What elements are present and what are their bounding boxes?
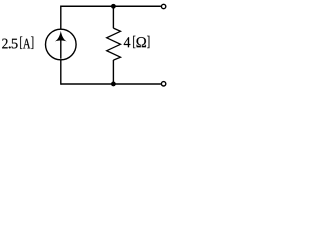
wire left branch lower	[60, 60, 62, 85]
wire left branch upper	[60, 6, 62, 30]
current source I1 arrow shaft	[60, 41, 62, 59]
terminal bottom-right	[161, 82, 165, 86]
resistor R1 zigzag	[107, 28, 121, 60]
resistor R1 top lead	[112, 6, 114, 28]
label 2.5 [A]	[2, 37, 33, 49]
junction node bottom	[111, 82, 116, 87]
label 4 [Ohm]	[124, 36, 150, 48]
wire bottom	[61, 83, 161, 85]
junction node top	[111, 4, 116, 9]
terminal top-right	[161, 4, 165, 8]
current source I1 arrowhead	[55, 31, 67, 42]
current source I1 circle	[46, 29, 77, 60]
wire top	[61, 5, 161, 7]
resistor R1 bottom lead	[112, 60, 114, 84]
